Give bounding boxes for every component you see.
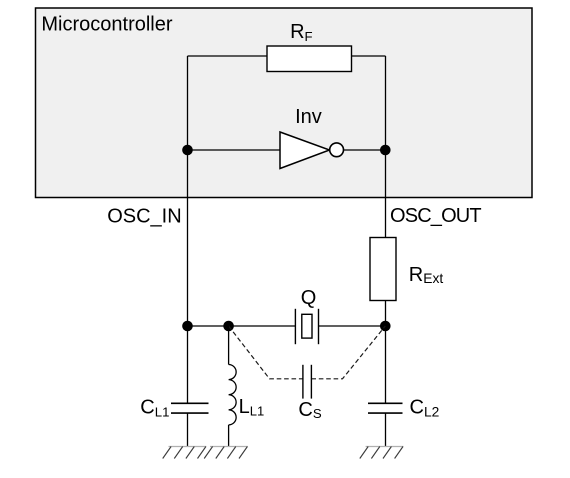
junction dot inverter output node <box>380 145 391 156</box>
inductor LL1 <box>229 365 237 425</box>
svg-text:OSC_OUT: OSC_OUT <box>390 205 481 227</box>
svg-text:Q: Q <box>301 287 317 309</box>
wire node horizontal right <box>319 325 386 327</box>
svg-text:Microcontroller: Microcontroller <box>41 14 172 36</box>
wire OSC_IN vertical <box>187 56 189 403</box>
svg-text:CL2: CL2 <box>410 396 440 419</box>
label LL1 <box>239 396 265 419</box>
microcontroller box <box>36 8 533 198</box>
ground CL1 <box>163 447 207 459</box>
capacitor CL2 <box>368 403 403 413</box>
svg-text:OSC_IN: OSC_IN <box>107 205 181 227</box>
wire inverter output <box>343 149 385 151</box>
label CL1 <box>140 397 169 420</box>
capacitor CS <box>303 365 312 399</box>
wire top horizontal (RF feedback) <box>188 55 386 57</box>
svg-text:CL1: CL1 <box>140 397 169 420</box>
label CL2 <box>410 396 440 419</box>
label RExt <box>409 264 444 286</box>
junction dot node right <box>380 321 391 332</box>
resistor RF <box>267 46 352 72</box>
dashed wire CS right <box>311 326 385 379</box>
wire inductor bottom <box>228 425 230 447</box>
label Q <box>301 287 317 309</box>
ground CL2 <box>360 447 404 459</box>
resistor RExt <box>370 238 396 301</box>
inverter bubble <box>330 143 344 157</box>
label Inv <box>295 106 322 128</box>
label RF <box>290 21 313 44</box>
junction dot inverter input node <box>182 145 193 156</box>
svg-text:RExt: RExt <box>409 264 444 286</box>
wire CL1 bottom <box>187 413 189 446</box>
junction dot node left <box>182 321 193 332</box>
junction dot node inductor <box>223 321 234 332</box>
pin label OSC_IN <box>107 205 181 227</box>
pin label OSC_OUT <box>390 205 481 227</box>
svg-text:Inv: Inv <box>295 106 322 128</box>
dashed wire CS left <box>229 326 303 379</box>
capacitor CL1 <box>171 403 209 413</box>
svg-text:CS: CS <box>298 399 321 421</box>
wire inverter input <box>188 149 281 151</box>
inverter Inv <box>280 132 330 169</box>
wire CL2 bottom <box>385 413 387 446</box>
wire OSC_OUT vertical <box>385 56 387 403</box>
ground LL1 <box>204 447 248 459</box>
crystal Q <box>295 309 318 344</box>
label Microcontroller <box>41 14 172 36</box>
label CS <box>298 399 321 421</box>
wire inductor top <box>228 326 230 365</box>
svg-text:LL1: LL1 <box>239 396 265 419</box>
wire node horizontal left <box>188 325 296 327</box>
